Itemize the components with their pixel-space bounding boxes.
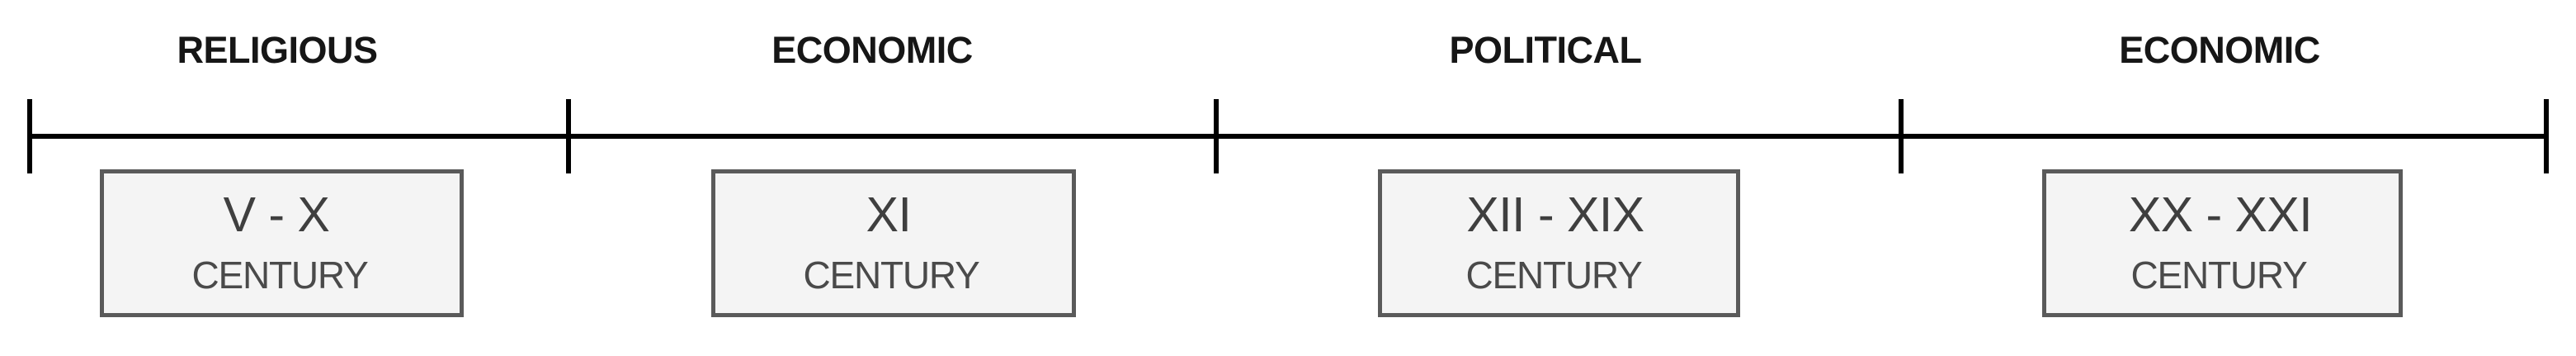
text XX - XXI	[2129, 191, 2312, 240]
timeline axis	[30, 134, 2546, 139]
box XI century	[711, 169, 1076, 317]
label ECONOMIC (right)	[2119, 31, 2320, 69]
box XII-XIX century	[1378, 169, 1740, 317]
label RELIGIOUS	[177, 31, 377, 69]
tick 5 (right end)	[2544, 99, 2549, 173]
text CENTURY 4	[2130, 256, 2306, 294]
text CENTURY 3	[1465, 256, 1641, 294]
text CENTURY 1	[191, 256, 367, 294]
box V-X century	[100, 169, 464, 317]
text V - X	[224, 191, 330, 240]
box XX-XXI century	[2042, 169, 2403, 317]
label POLITICAL	[1450, 31, 1642, 69]
text XI	[866, 191, 912, 240]
text CENTURY 2	[803, 256, 979, 294]
tick 4	[1899, 99, 1904, 173]
tick 2	[566, 99, 571, 173]
text XII - XIX	[1466, 191, 1644, 240]
tick 3	[1214, 99, 1219, 173]
label ECONOMIC (left)	[771, 31, 973, 69]
tick 1 (left end)	[27, 99, 32, 173]
